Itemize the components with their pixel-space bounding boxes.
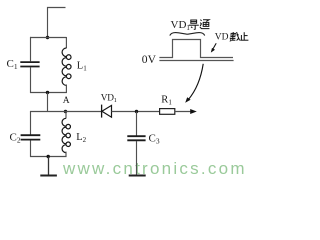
svg-text:VD1: VD1 xyxy=(101,93,117,104)
wire loop1 top rail xyxy=(30,37,67,39)
hanzi zhi xyxy=(240,32,248,40)
wire loop1 bottom rail xyxy=(30,92,67,94)
waveform lower line xyxy=(159,60,233,62)
wire loop2 bottom rail xyxy=(30,156,67,158)
junction dot loop1 bottom xyxy=(46,91,49,94)
svg-text:VD1: VD1 xyxy=(171,19,191,32)
wire loop2 top rail xyxy=(30,111,102,113)
diode VD1 xyxy=(101,93,117,117)
inductor L1 xyxy=(62,37,87,93)
wire between loops xyxy=(47,93,49,112)
wire output with arrow xyxy=(175,109,197,114)
brace over pulse xyxy=(170,33,205,36)
svg-text:L1: L1 xyxy=(77,61,87,73)
ground (under C3) xyxy=(129,175,146,177)
inductor L2 xyxy=(62,112,87,157)
hanzi dao xyxy=(189,20,199,29)
svg-text:VD1: VD1 xyxy=(215,33,232,44)
label VD1 cutoff (VD1 jie zhi) xyxy=(215,32,249,43)
capacitor C2 xyxy=(10,132,41,145)
curved arrow waveform to output xyxy=(185,64,203,103)
junction dot loop2 bottom xyxy=(47,155,50,158)
hanzi jie xyxy=(230,32,239,41)
hanzi tong xyxy=(200,20,210,29)
junction dot loop1 top xyxy=(46,36,49,39)
svg-text:C3: C3 xyxy=(149,133,160,146)
ground (left) xyxy=(40,157,57,176)
resistor R1 xyxy=(160,95,175,115)
label VD1 conducting (VD1 dao tong) xyxy=(171,19,210,32)
svg-text:www.cntronics.com: www.cntronics.com xyxy=(62,159,247,178)
wire loop1 left lower xyxy=(30,67,32,93)
svg-text:L2: L2 xyxy=(76,132,86,144)
junction dot C3 tap xyxy=(135,110,138,113)
wire loop1 left upper xyxy=(30,37,32,61)
capacitor C3 xyxy=(127,112,160,175)
svg-text:0V: 0V xyxy=(142,53,157,66)
wire loop2 left lower xyxy=(30,140,32,157)
svg-text:C1: C1 xyxy=(7,58,18,71)
wire loop2 left upper xyxy=(30,111,32,135)
waveform pulse xyxy=(159,40,233,58)
svg-text:C2: C2 xyxy=(10,132,21,145)
node A xyxy=(63,96,70,113)
svg-text:R1: R1 xyxy=(161,95,172,107)
wire top stub xyxy=(48,8,66,38)
arrow to baseline (cutoff pointer) xyxy=(211,43,216,52)
svg-text:A: A xyxy=(63,96,70,106)
wire diode to R1 xyxy=(112,111,160,113)
capacitor C1 xyxy=(7,58,40,71)
